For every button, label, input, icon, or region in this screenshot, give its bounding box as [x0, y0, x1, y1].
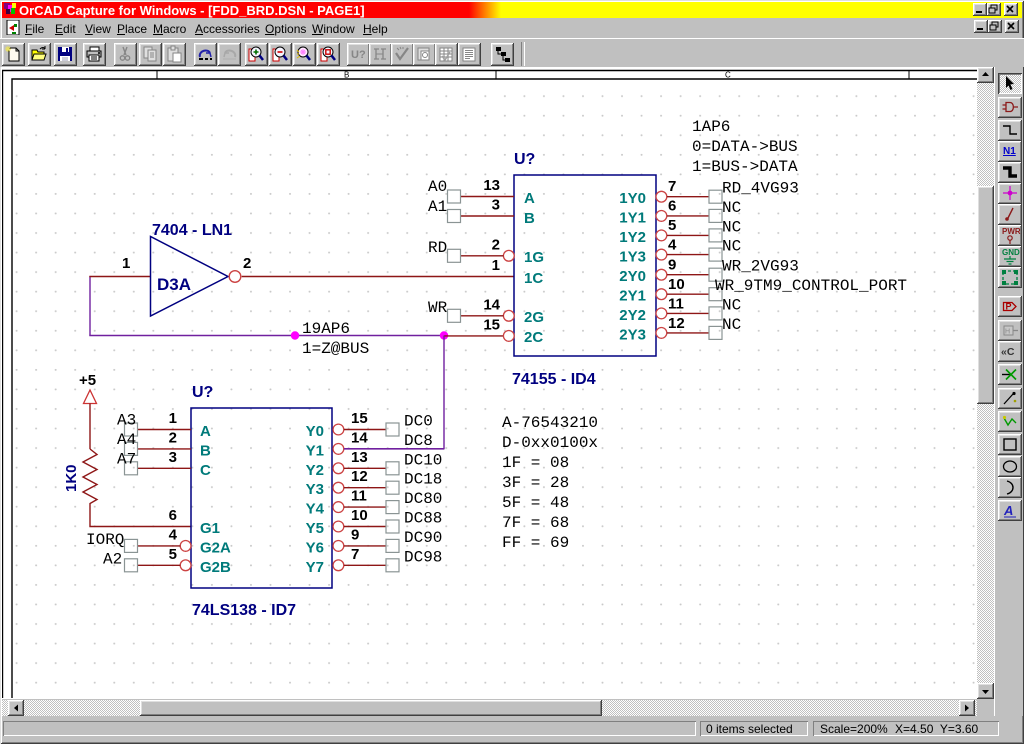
svg-text:A3: A3 — [117, 412, 136, 430]
svg-text:NC: NC — [722, 218, 741, 236]
svg-text:2: 2 — [492, 237, 500, 254]
svg-text:12: 12 — [668, 315, 685, 332]
ruler tick 1 — [156, 71, 158, 80]
svg-text:B: B — [524, 210, 535, 227]
svg-text:1Y1: 1Y1 — [619, 210, 646, 227]
inverter D3A (7404) triangle — [151, 237, 229, 317]
net stub box IORQ — [125, 539, 138, 552]
wire: inverter pin 1 input — [89, 276, 150, 278]
svg-text:DC18: DC18 — [404, 471, 442, 489]
svg-text:2C: 2C — [524, 329, 543, 346]
svg-text:1=BUS->DATA: 1=BUS->DATA — [692, 158, 798, 176]
svg-text:NC: NC — [722, 238, 741, 256]
svg-text:Y7: Y7 — [306, 559, 324, 576]
svg-text:10: 10 — [351, 507, 368, 524]
svg-text:13: 13 — [483, 177, 500, 194]
svg-text:PWR: PWR — [1002, 227, 1021, 236]
svg-text:3: 3 — [492, 197, 500, 214]
svg-text:U?: U? — [192, 384, 213, 401]
svg-text:Y2: Y2 — [306, 462, 324, 479]
svg-text:G1: G1 — [200, 520, 220, 537]
horizontal scrollbar — [2, 700, 977, 716]
grid dots — [13, 80, 977, 698]
svg-text:13: 13 — [351, 449, 368, 466]
net stub box A4 — [125, 442, 138, 455]
svg-text:Y1: Y1 — [306, 442, 324, 459]
svg-text:C: C — [200, 462, 211, 479]
svg-text:H: H — [1005, 329, 1010, 336]
svg-text:Y4: Y4 — [306, 501, 325, 518]
net stub box A1 — [448, 210, 461, 223]
wires 74155 outputs to stubs — [667, 197, 709, 333]
svg-text:14: 14 — [351, 429, 368, 446]
wire: inverter input loop vertical — [89, 277, 91, 336]
wire A7 to pin 3 — [138, 467, 192, 469]
74155 output bubbles pins 7,6,5,4,9,10,11,12 — [656, 191, 667, 338]
svg-text:15: 15 — [351, 410, 368, 427]
wire Y1 to feedback net (purple) — [344, 448, 444, 450]
svg-text:A0: A0 — [428, 178, 447, 196]
svg-text:U?: U? — [351, 49, 366, 61]
svg-text:A-76543210: A-76543210 — [502, 414, 598, 432]
svg-text:Y3: Y3 — [306, 481, 324, 498]
svg-text:1: 1 — [122, 255, 130, 272]
svg-text:GND: GND — [1002, 248, 1020, 257]
wire A2 to pin 5 — [138, 564, 181, 566]
svg-text:D3A: D3A — [157, 275, 191, 294]
svg-text:2: 2 — [243, 255, 251, 272]
svg-text:5: 5 — [668, 217, 676, 234]
svg-text:A7: A7 — [117, 450, 136, 468]
svg-text:WR_2VG93: WR_2VG93 — [722, 258, 799, 276]
tool palette — [994, 67, 1023, 716]
svg-text:2Y1: 2Y1 — [619, 288, 646, 305]
svg-text:A: A — [524, 190, 535, 207]
svg-text:«C: «C — [1001, 346, 1015, 358]
svg-text:11: 11 — [351, 488, 367, 505]
svg-text:A2: A2 — [103, 550, 122, 568]
svg-text:1AP6: 1AP6 — [692, 118, 730, 136]
wire: junction J2 down to Y1 net — [344, 336, 445, 449]
wire A4 to pin 2 — [138, 448, 192, 450]
power symbol triangle — [84, 390, 97, 404]
vertical scrollbar — [977, 67, 994, 699]
status bar — [3, 718, 1021, 739]
74LS138 bubble G2A — [180, 541, 191, 552]
net stub boxes DC outputs — [386, 423, 399, 572]
svg-text:+5: +5 — [79, 372, 96, 389]
toolbar — [0, 38, 1024, 67]
svg-text:6: 6 — [668, 198, 676, 215]
svg-text:3: 3 — [169, 449, 177, 466]
svg-text:Y0: Y0 — [306, 423, 324, 440]
svg-text:DC90: DC90 — [404, 529, 442, 547]
svg-text:1G: 1G — [524, 249, 544, 266]
net stub box A3 — [125, 423, 138, 436]
svg-text:1Y0: 1Y0 — [619, 190, 646, 207]
svg-text:A: A — [1003, 503, 1013, 518]
svg-text:11: 11 — [668, 296, 684, 313]
svg-text:DC10: DC10 — [404, 451, 442, 469]
svg-text:5: 5 — [169, 546, 177, 563]
svg-text:D-0xx0100x: D-0xx0100x — [502, 434, 598, 452]
svg-text:B: B — [344, 71, 349, 80]
svg-text:DC98: DC98 — [404, 548, 442, 566]
svg-text:IORQ: IORQ — [86, 531, 124, 549]
menu bar — [3, 18, 1021, 37]
svg-text:6: 6 — [169, 507, 177, 524]
svg-text:N1: N1 — [1003, 146, 1016, 157]
net stub box A7 — [125, 462, 138, 475]
svg-text:P: P — [1006, 302, 1012, 312]
svg-text:A1: A1 — [428, 198, 447, 216]
net stub box WR — [448, 309, 461, 322]
wire: junction J2 to 74155 pin 2C — [444, 335, 504, 337]
svg-text:Y6: Y6 — [306, 539, 324, 556]
wire A3 to pin 1 — [138, 429, 192, 431]
node junction J1 — [291, 331, 299, 339]
svg-text:G2B: G2B — [200, 559, 231, 576]
wire WR to 74155 pin 14 — [461, 315, 504, 317]
74LS138 bubble G2B — [180, 560, 191, 571]
svg-text:7404 - LN1: 7404 - LN1 — [152, 222, 232, 239]
svg-text:NC: NC — [722, 296, 741, 314]
svg-text:9: 9 — [351, 526, 359, 543]
svg-text:12: 12 — [351, 468, 368, 485]
wire: feedback net horizontal to junction — [89, 335, 444, 337]
svg-text:4: 4 — [169, 526, 178, 543]
svg-text:U?: U? — [514, 151, 535, 168]
title bar — [2, 2, 1022, 18]
svg-text:DC8: DC8 — [404, 432, 433, 450]
node junction J2 — [440, 331, 448, 339]
svg-text:5F = 48: 5F = 48 — [502, 494, 569, 512]
svg-text:2Y3: 2Y3 — [619, 327, 646, 344]
svg-text:B: B — [200, 442, 211, 459]
wire A1 to 74155 pin 3 — [461, 215, 515, 217]
wire resistor to G1 — [90, 509, 191, 527]
svg-text:14: 14 — [483, 297, 500, 314]
net stub boxes 74155 outputs — [709, 190, 722, 339]
svg-text:FF = 69: FF = 69 — [502, 534, 569, 552]
svg-text:1Y2: 1Y2 — [619, 229, 646, 246]
svg-text:DC80: DC80 — [404, 490, 442, 508]
svg-text:15: 15 — [483, 317, 500, 334]
svg-text:1C: 1C — [524, 270, 543, 287]
wire RD to 74155 pin 2 — [461, 255, 504, 257]
svg-text:2: 2 — [169, 429, 177, 446]
svg-text:7: 7 — [668, 178, 676, 195]
svg-text:19AP6: 19AP6 — [302, 320, 350, 338]
page border frame inner — [12, 79, 977, 698]
svg-text:1=Z@BUS: 1=Z@BUS — [302, 340, 369, 358]
IC U? 74155 body — [514, 175, 656, 356]
ruler tick 2 — [495, 71, 497, 80]
svg-text:WR: WR — [428, 299, 448, 317]
net stub box RD — [448, 249, 461, 262]
svg-text:3F = 28: 3F = 28 — [502, 474, 569, 492]
net stub box A2 — [125, 559, 138, 572]
svg-text:74LS138 - ID7: 74LS138 - ID7 — [192, 602, 296, 619]
svg-text:WR_9TM9_CONTROL_PORT: WR_9TM9_CONTROL_PORT — [715, 277, 907, 295]
svg-text:1: 1 — [492, 257, 500, 274]
svg-text:7F = 68: 7F = 68 — [502, 514, 569, 532]
net stub box A0 — [448, 190, 461, 203]
ruler tick 3 — [908, 71, 910, 80]
wire power to resistor — [89, 404, 91, 450]
resistor R 1K0 — [83, 449, 97, 509]
svg-text:74155 - ID4: 74155 - ID4 — [512, 371, 596, 388]
74LS138 output bubbles Y0-Y7 — [333, 424, 344, 571]
svg-text:C: C — [725, 71, 731, 80]
svg-text:7: 7 — [351, 546, 359, 563]
74155 bubble pin 15 (2C) — [503, 331, 514, 342]
svg-text:DC88: DC88 — [404, 510, 442, 528]
svg-text:G2A: G2A — [200, 539, 231, 556]
svg-text:A: A — [200, 423, 211, 440]
svg-text:10: 10 — [668, 276, 685, 293]
svg-text:2Y2: 2Y2 — [619, 307, 646, 324]
inverter output bubble — [229, 271, 241, 283]
74155 bubble pin 2 (1G) — [503, 250, 514, 261]
svg-text:RD: RD — [428, 239, 447, 257]
wire A0 to 74155 pin 13 — [461, 196, 515, 198]
svg-text:NC: NC — [722, 199, 741, 217]
svg-text:0=DATA->BUS: 0=DATA->BUS — [692, 138, 798, 156]
svg-text:1K0: 1K0 — [63, 464, 80, 492]
svg-text:2Y0: 2Y0 — [619, 268, 646, 285]
wires 74LS138 outputs to stubs — [344, 430, 386, 566]
74155 bubble pin 14 (2G) — [503, 310, 514, 321]
svg-text:Y5: Y5 — [306, 520, 324, 537]
svg-text:1F = 08: 1F = 08 — [502, 454, 569, 472]
svg-text:A4: A4 — [117, 431, 136, 449]
svg-text:DC0: DC0 — [404, 413, 433, 431]
svg-text:4: 4 — [668, 237, 677, 254]
svg-text:9: 9 — [668, 257, 676, 274]
svg-text:1: 1 — [169, 410, 177, 427]
svg-text:RD_4VG93: RD_4VG93 — [722, 180, 799, 198]
svg-text:NC: NC — [722, 316, 741, 334]
svg-text:2G: 2G — [524, 309, 544, 326]
svg-text:1Y3: 1Y3 — [619, 249, 646, 266]
IC U? 74LS138 body — [191, 408, 332, 588]
wire: inverter output to 74155 pin 1C — [242, 276, 514, 278]
wire IORQ to pin 4 — [138, 545, 181, 547]
